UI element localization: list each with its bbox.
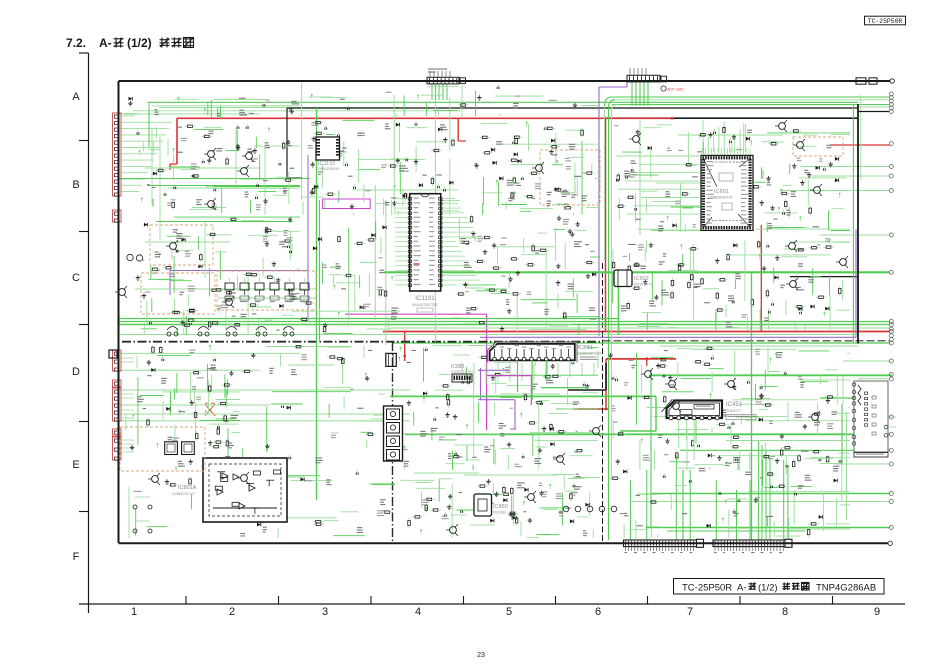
svg-text:E: E	[72, 459, 79, 471]
svg-text:8: 8	[782, 606, 788, 618]
svg-text:2: 2	[229, 606, 235, 618]
svg-text:A-: A-	[99, 36, 112, 50]
svg-text:C0BBGZ000001: C0BBGZ000001	[316, 167, 340, 171]
svg-text:IC602: IC602	[634, 276, 649, 282]
svg-text:C0DBZZZ00004: C0DBZZZ00004	[451, 370, 473, 374]
svg-text:IC881: IC881	[578, 345, 593, 351]
svg-text:TC-25P50R: TC-25P50R	[868, 18, 903, 25]
svg-text:4: 4	[415, 606, 421, 618]
svg-text:TC-25P50R: TC-25P50R	[682, 582, 732, 593]
svg-text:A: A	[72, 91, 80, 103]
svg-text:A-: A-	[737, 582, 747, 593]
svg-text:(NOT USE): (NOT USE)	[667, 88, 683, 92]
svg-text:6: 6	[595, 606, 601, 618]
svg-text:TDA9177: TDA9177	[726, 409, 741, 413]
svg-text:TNP4G286AB: TNP4G286AB	[816, 582, 876, 593]
svg-text:C: C	[72, 272, 80, 284]
svg-text:3: 3	[322, 606, 328, 618]
svg-text:(1/2): (1/2)	[758, 582, 778, 593]
svg-text:7.2.: 7.2.	[66, 36, 86, 50]
svg-text:IC860: IC860	[493, 504, 508, 510]
svg-text:IC1101: IC1101	[415, 295, 435, 302]
svg-text:(NTDL04-T): (NTDL04-T)	[634, 283, 652, 287]
svg-text:CVB82204-107: CVB82204-107	[172, 492, 195, 496]
svg-text:IC601: IC601	[714, 189, 729, 195]
svg-text:F: F	[73, 551, 80, 563]
svg-text:7: 7	[687, 606, 693, 618]
svg-text:1: 1	[131, 606, 137, 618]
svg-text:9: 9	[874, 606, 880, 618]
svg-text:5: 5	[506, 606, 512, 618]
svg-text:IC801A: IC801A	[178, 485, 197, 491]
svg-text:MN1873287T8Z: MN1873287T8Z	[412, 303, 438, 307]
svg-text:C0DBAYB00001: C0DBAYB00001	[578, 352, 602, 356]
svg-text:23: 23	[477, 652, 485, 659]
svg-text:(1/2): (1/2)	[127, 36, 152, 50]
svg-text:D: D	[72, 366, 80, 378]
svg-text:DE160B: DE160B	[493, 511, 506, 515]
svg-text:B: B	[72, 179, 79, 191]
svg-text:IC451: IC451	[726, 402, 743, 408]
